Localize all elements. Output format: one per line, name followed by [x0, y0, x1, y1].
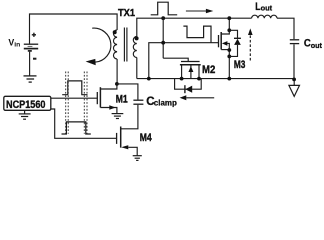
- label Cclamp: [146, 94, 177, 108]
- waveform pulse (inverted) above M3 gate line: [183, 26, 211, 43]
- ground (M1 source): [112, 114, 124, 119]
- ground (output, open triangle): [289, 78, 300, 97]
- svg-text:TX1: TX1: [118, 8, 135, 19]
- waveform M4 gate pulse: [62, 122, 91, 134]
- waveform pulse (positive) above rail: [151, 2, 178, 15]
- wire rail after Lout to Cout: [277, 18, 294, 39]
- capacitor Cclamp: [133, 100, 143, 104]
- label Cout: [304, 37, 323, 50]
- battery Vin: [24, 44, 38, 75]
- arrow current direction (top, right): [186, 10, 206, 12]
- circular arrow (primary current loop): [92, 28, 111, 62]
- transistor M1 (main switch): [97, 84, 117, 114]
- svg-text:clamp: clamp: [154, 98, 177, 107]
- ground (battery): [24, 76, 37, 82]
- wire M3 drain to rail: [228, 18, 230, 30]
- secondary phasing dot: [135, 36, 139, 40]
- transistor M2 (sync rectifier, rotated): [180, 62, 201, 79]
- battery minus sign: [33, 58, 36, 60]
- node junction dots M3: [227, 16, 231, 20]
- capacitor Cout: [290, 40, 299, 44]
- wire Cout bottom to ground rail: [293, 44, 295, 78]
- wire M2 gate feed: [163, 58, 188, 61]
- svg-text:M4: M4: [140, 132, 153, 144]
- dashed timing lines: [66, 72, 87, 134]
- wire clamp node to Cclamp: [117, 84, 138, 100]
- wire primary bottom to M1 drain node: [116, 59, 118, 84]
- wire secondary top terminal to output rail: [137, 18, 252, 36]
- inductor Lout: [252, 15, 277, 18]
- wire Cclamp bottom to M4 drain: [121, 105, 138, 129]
- svg-text:out: out: [311, 41, 323, 50]
- arrow current direction (under M2, left): [186, 97, 214, 99]
- svg-text:out: out: [261, 3, 273, 12]
- arrow dashed current direction (up, at M3): [249, 35, 251, 61]
- wire NCP1560 top output to M1 gate: [51, 97, 98, 99]
- label Lout: [255, 1, 272, 13]
- transformer TX1 primary winding: [113, 30, 117, 59]
- node junction dot gate line: [161, 41, 165, 45]
- transistor M4 (active clamp switch): [117, 127, 138, 156]
- primary phasing dot: [113, 30, 117, 34]
- svg-text:M1: M1: [116, 93, 128, 105]
- svg-text:NCP1560: NCP1560: [6, 99, 46, 111]
- diode body diode of M3: [229, 30, 241, 56]
- waveform M1 gate pulse: [62, 81, 87, 95]
- label Vin: [8, 37, 20, 48]
- wire NCP1560 bottom output to M4 gate: [51, 109, 117, 138]
- battery plus sign: [32, 33, 36, 37]
- wire secondary bottom terminal: [136, 58, 138, 79]
- svg-text:M3: M3: [234, 59, 246, 71]
- transformer core: [124, 28, 127, 62]
- node junction dots M2 source/drain on rail: [180, 77, 184, 81]
- wire top-left rail from Vin to TX1 primary: [30, 14, 118, 44]
- transistor M3 (sync rectifier): [219, 30, 230, 78]
- node junction dot M1 drain / clamp node: [115, 82, 119, 86]
- wire secondary bottom rail: [137, 78, 294, 80]
- ground (M4 source): [133, 156, 142, 161]
- ground (NCP1560): [19, 110, 31, 119]
- svg-text:in: in: [14, 42, 20, 49]
- node junction dot on rail (gate feed): [161, 16, 165, 20]
- wire gate line to M3 and down to bottom rail: [149, 43, 219, 79]
- diode body diode of M2: [175, 79, 202, 94]
- node junction dot gate line to bottom rail: [147, 77, 151, 81]
- controller NCP1560 box: [4, 96, 51, 110]
- transformer TX1 secondary winding: [133, 37, 137, 58]
- wire gate feed vertical from rail dot: [162, 18, 164, 58]
- svg-text:M2: M2: [202, 64, 215, 76]
